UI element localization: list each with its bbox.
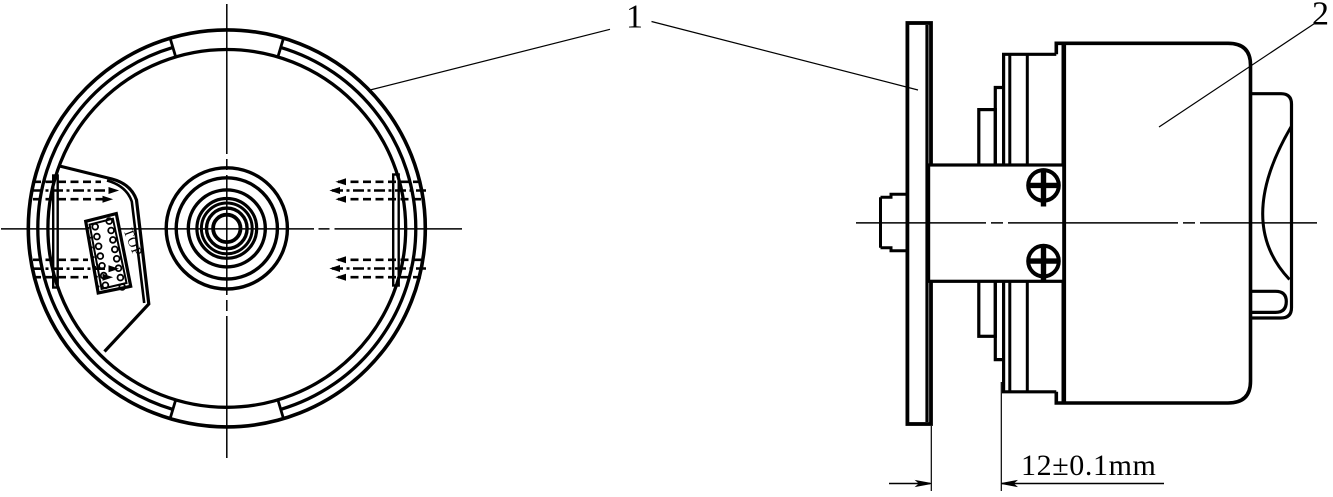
shaft circle (213, 215, 240, 242)
lower-right hidden hole dashed edge top (338, 258, 424, 261)
middle rim circle right arc (281, 47, 416, 409)
callout 2 leader to motor body (1159, 23, 1316, 128)
spacer cylinder B (995, 88, 1003, 360)
dimension arrow left (916, 481, 931, 487)
right flat bar (393, 175, 399, 286)
rear terminal tab (1252, 291, 1287, 312)
bottom tab radial line left (170, 400, 176, 419)
upper-right hole arrow bottom (337, 196, 346, 202)
connector body inner outline (90, 219, 127, 289)
lower-left hole arrow middle (109, 266, 118, 272)
spacer cylinder C inner line 2 (1026, 54, 1029, 392)
upper-right hidden hole dashed edge bottom (338, 198, 424, 201)
mounting hub bracket (929, 165, 1064, 281)
screw 2 cross slot (1027, 244, 1061, 282)
lower-right hole arrow bottom (337, 274, 346, 280)
svg-text:12±0.1mm: 12±0.1mm (1021, 449, 1156, 482)
callout 1 leader to front view rim (370, 29, 610, 90)
horizontal centerline of front view (1, 228, 462, 230)
lower-left hidden hole centerline over connector (31, 267, 113, 270)
side view centerline over hub (929, 222, 1063, 224)
top tab radial line left (170, 38, 176, 57)
connector pin column left (92, 224, 108, 288)
upper-right hidden hole centerline (332, 189, 426, 192)
callout 1 leader to flange plate (652, 22, 919, 91)
bearing boss circle 6 (207, 208, 248, 249)
spacer cylinder C (1004, 54, 1057, 392)
dimension arrow right (1001, 481, 1016, 487)
screw 1 cross slot (1027, 168, 1061, 206)
lower-right hidden hole centerline (332, 267, 426, 270)
spacer cylinder A (979, 110, 996, 337)
bearing boss circle 5 (201, 203, 252, 254)
upper-left hidden hole centerline (31, 189, 113, 192)
svg-text:1: 1 (626, 0, 643, 36)
lower-right hole arrow middle (331, 266, 340, 272)
upper-right hole arrow middle (331, 188, 340, 194)
middle rim circle left arc (38, 47, 173, 409)
top tab radial line right (278, 38, 284, 57)
lower-left hidden hole dashed edge top (33, 258, 88, 261)
connector pin column right (106, 218, 125, 290)
vertical centerline of front view (226, 4, 228, 458)
motor front face line (1062, 43, 1067, 403)
bearing boss circle 3 (188, 190, 265, 267)
outer rim circle (28, 30, 425, 427)
screw 1 head (1028, 170, 1059, 201)
dimension line right segment (1002, 483, 1164, 485)
connector housing outline (60, 166, 149, 352)
bottom tab radial line right (278, 400, 284, 419)
dimension line left segment (889, 483, 930, 485)
upper-left hidden hole dashed edge bottom (33, 198, 104, 201)
lower-left hole arrow bottom (103, 274, 112, 280)
left flat bar (53, 176, 58, 288)
dimension extension line left (930, 426, 932, 491)
lower-right hole arrow top (337, 257, 346, 263)
connector body (86, 214, 131, 293)
bearing boss circle 4 (197, 199, 257, 259)
side view horizontal centerline (856, 222, 1317, 224)
lower-left hidden hole dashed edge bottom (33, 276, 88, 279)
screw 2 head (1028, 246, 1059, 277)
spacer cylinder C inner line 1 (1008, 54, 1011, 392)
dimension extension line right (1000, 382, 1002, 491)
flange plate outline (907, 23, 931, 424)
connector housing inner edge line (107, 181, 144, 304)
connector pin numbers (87, 227, 99, 288)
upper-left hidden hole dashed edge top (33, 181, 101, 184)
bearing boss circle 1 (166, 168, 287, 289)
upper-left hole arrow middle (109, 188, 118, 194)
bearing boss circle 2 (176, 178, 277, 279)
upper-left hole arrow bottom (103, 196, 112, 202)
flange plate inner face line (925, 25, 928, 422)
rear end cap dome arc (1263, 127, 1292, 280)
upper-right hole arrow top (337, 179, 346, 185)
shaft stub (881, 194, 907, 250)
lower-right hidden hole dashed edge bottom (338, 276, 424, 279)
svg-text:2: 2 (1312, 0, 1329, 33)
inner rim circle (48, 50, 406, 408)
motor body outline (1056, 43, 1250, 403)
upper-right hidden hole dashed edge top (338, 181, 424, 184)
rear end cap (1252, 94, 1292, 318)
